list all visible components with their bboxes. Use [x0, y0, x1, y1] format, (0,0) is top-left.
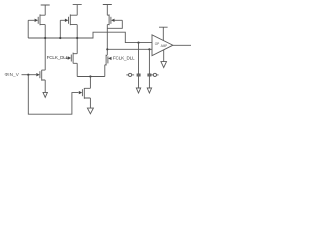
- transistor PB: [60, 14, 77, 25]
- junction dot PA source on RAIL1: [44, 37, 46, 39]
- label input PHI IN_V: [5, 72, 20, 77]
- svg-text:FCLK_DLL: FCLK_DLL: [47, 55, 69, 60]
- transistor M4 (NMOS switch, mirrored): [105, 55, 112, 66]
- junction dot C1 tap on op-amp upper input wire: [137, 42, 139, 44]
- switch S1 (phase switch at C1): [126, 73, 134, 76]
- op-amp output wire: [173, 44, 191, 46]
- supply T-bar above PA: [41, 5, 50, 15]
- transistor M3 (NMOS switch): [66, 53, 78, 64]
- wire M3 source down to H2: [76, 63, 78, 76]
- wire input to M_left gate: [22, 74, 37, 76]
- ground arrow under M_left: [43, 92, 47, 97]
- wire M_left source down: [44, 80, 46, 93]
- junction dot input branch: [27, 74, 29, 76]
- supply T-bar above PC: [103, 5, 112, 16]
- transistor M5 (bottom NMOS): [79, 88, 91, 99]
- transistor PA (PMOS, diode-wired to RAIL1): [28, 14, 45, 25]
- label FCLK_DLL (left): [47, 55, 69, 60]
- svg-text:ΦIN_V: ΦIN_V: [5, 72, 20, 77]
- wire input branch down to bottom rail and over to M5 gate: [28, 75, 78, 115]
- ground arrow under C2: [147, 88, 151, 93]
- transistor PC (mirrored, diode-connected): [107, 14, 122, 25]
- wire M5 drain up to H2: [89, 77, 91, 89]
- op-amp U1: [152, 35, 173, 56]
- wire C2 to ground: [148, 76, 150, 88]
- supply T-bar above PB: [73, 5, 82, 16]
- ground arrow under C1: [136, 88, 140, 93]
- wire PA source down to M_left drain: [44, 25, 46, 71]
- junction dot PB source / M3 drain on RAIL1: [76, 37, 78, 39]
- wire node H2: [77, 76, 105, 78]
- wire C1 to ground: [138, 76, 140, 88]
- capacitor C1: [137, 74, 141, 76]
- svg-text:AMP: AMP: [161, 44, 168, 48]
- wire PB gate stub to RAIL1: [59, 20, 61, 38]
- ground arrow under M5: [87, 108, 93, 114]
- label FCLK_DLL (right): [113, 55, 135, 60]
- capacitor C2: [147, 74, 151, 76]
- supply T-bar above op-amp: [159, 27, 168, 40]
- transistor M_left (input NMOS): [36, 70, 45, 81]
- junction dot op-amp lower input tap: [106, 48, 108, 50]
- wire M4 source down to H2: [104, 65, 106, 77]
- wire PC gate diode loop: [107, 20, 122, 28]
- wire RAIL1 node A: [28, 32, 152, 42]
- capacitor C2 branch wire: [148, 49, 150, 74]
- wire M5 source down: [89, 98, 91, 108]
- capacitor C1 branch wire: [138, 43, 140, 74]
- switch S2 (phase switch at C2): [151, 73, 158, 76]
- ground under op-amp: [161, 50, 167, 68]
- junction dot M5 drain on H2: [89, 75, 91, 77]
- wire PC source down to M4 drain: [106, 25, 108, 55]
- wire op-amp lower input from PC/M4 node: [107, 48, 152, 50]
- junction dot C2 tap: [148, 48, 150, 50]
- svg-text:OP: OP: [155, 42, 159, 46]
- wire PB source down to M3 drain: [76, 25, 78, 54]
- wire PA gate loop down to RAIL1: [27, 20, 29, 38]
- junction dot PB gate on RAIL1: [59, 37, 61, 39]
- svg-text:FCLK_DLL: FCLK_DLL: [113, 55, 135, 60]
